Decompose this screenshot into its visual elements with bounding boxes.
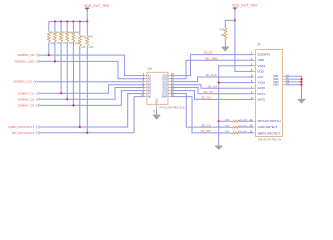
J5 right pin stubs (283, 76, 286, 84)
node D3/R45 junction (72, 104, 74, 106)
svg-text:CARD DETECT: CARD DETECT (258, 125, 278, 129)
svg-text:SD_WP: SD_WP (201, 129, 211, 133)
svg-text:U9: U9 (148, 67, 152, 71)
node R49 junction (218, 120, 220, 122)
svg-text:DAT0: DAT0 (258, 86, 266, 90)
node D0/R41 junction (48, 54, 50, 56)
svg-text:10K: 10K (89, 45, 94, 49)
svg-text:SD_CLK: SD_CLK (206, 73, 217, 77)
svg-text:SD_D3: SD_D3 (204, 51, 214, 55)
resistor R43 (pull-up col3) (60, 22, 68, 94)
svg-text:R47: R47 (89, 35, 94, 39)
svg-text:11: 11 (153, 111, 156, 113)
svg-text:SDMMC_D2: SDMMC_D2 (17, 97, 34, 101)
wire SDMMC_D1 to U9 pin4 (39, 85, 145, 94)
svg-text:DAT2: DAT2 (258, 97, 266, 101)
svg-text:SD_CD: SD_CD (201, 123, 211, 127)
ground arrow bottom (GND net) (215, 146, 223, 150)
svg-text:10: 10 (249, 124, 252, 128)
port SDMMC_D2 (17, 97, 39, 101)
U9 left pin stubs (145, 76, 148, 97)
svg-text:PI4ULS3V4857ZLE: PI4ULS3V4857ZLE (160, 105, 185, 109)
svg-text:12: 12 (249, 118, 252, 122)
resistor R50 (card detect series) (225, 125, 253, 128)
svg-text:WP/ACD SWITCH: WP/ACD SWITCH (258, 119, 281, 123)
wire branch to R48 (225, 20, 235, 27)
U9 right pin stubs (168, 76, 171, 97)
svg-text:CARD_PROTECT3: CARD_PROTECT3 (8, 125, 35, 129)
wire U9.B3 to SD_CLK net (171, 77, 254, 82)
U9 right pin numbers (171, 73, 174, 97)
port SDMMC_D1 (17, 91, 39, 95)
port WR_PROTECT3 (12, 131, 40, 135)
wire U9.B5 to SD_D1 net (171, 88, 254, 94)
svg-text:CMD: CMD (258, 58, 266, 62)
resistor R44 (pull-up col4) (66, 22, 74, 100)
svg-text:WRITE PROTECT: WRITE PROTECT (258, 131, 281, 135)
resistor R45 (pull-up col5) (72, 22, 80, 106)
svg-text:SW4: SW4 (273, 84, 279, 87)
resistor R48 (discharge) (220, 28, 227, 47)
J5 left pin names (257, 53, 281, 136)
J5 left pin numbers (249, 51, 253, 133)
svg-text:VDD: VDD (258, 69, 265, 73)
wire SDMMC_CMD to U9 pin2 (39, 61, 145, 78)
port SDMMC_D3 (17, 103, 39, 107)
wire GND net from J5 VSS1 (219, 66, 253, 146)
svg-text:SD_D0: SD_D0 (208, 84, 218, 88)
svg-text:SD_D1: SD_D1 (204, 90, 214, 94)
svg-text:10K: 10K (56, 41, 61, 45)
svg-text:10K: 10K (69, 41, 74, 45)
resistor R49 (WP/ACD switch pulldown) (219, 120, 253, 123)
resistor R42 (pull-up col2) (54, 22, 62, 62)
ground arrow right of J5 (298, 99, 306, 103)
U9 left pin names (148, 74, 152, 99)
svg-text:VDD_DUT_SD0: VDD_DUT_SD0 (232, 4, 257, 8)
svg-text:SM-AAJF-PEL-W: SM-AAJF-PEL-W (258, 138, 282, 142)
wire power2 down to J5 VDD pin (235, 10, 253, 71)
ground arrow under U9 (153, 115, 161, 120)
U9 left pin numbers (141, 73, 144, 97)
svg-text:GND: GND (156, 98, 159, 104)
J5 right switch pin names (273, 75, 279, 86)
svg-text:SDMMC_CMD: SDMMC_CMD (14, 59, 35, 63)
node bus junctions (54, 20, 89, 22)
wire SDMMC_CLK to U9 pin3 (37, 81, 145, 83)
node D1/R43 junction (60, 92, 62, 94)
J5 left pin stubs (253, 55, 256, 133)
wire SDMMC_D0 to U9 pin1 (39, 55, 145, 76)
resistor R46 (pull-up col6) (78, 22, 86, 128)
svg-text:SD_CMD: SD_CMD (205, 56, 217, 60)
svg-text:11: 11 (250, 130, 253, 134)
wire SDMMC_D3 to U9 pin6 (39, 91, 145, 106)
svg-text:SD_D2: SD_D2 (201, 96, 211, 100)
wire U9.B4 to SD_D0 net (171, 85, 254, 89)
svg-text:DAT1: DAT1 (258, 92, 266, 96)
port SDMMC_CLK (13, 80, 36, 84)
svg-text:VSS2: VSS2 (258, 81, 266, 85)
wire U9.B2 to SD_CMD net (171, 60, 254, 78)
node CMD/R42 junction (54, 60, 56, 62)
wire CARD_PROTECT3 to U9 pin7 (39, 94, 145, 128)
wire U9.B7 to SD_CD net (171, 94, 232, 128)
U9 right pin names (161, 74, 167, 99)
port SDMMC_D0 (17, 53, 39, 57)
node SW junctions (300, 78, 302, 86)
wire SDMMC_D2 to U9 pin5 (39, 88, 145, 100)
svg-text:SWP: SWP (161, 95, 167, 99)
wire top pull-up bus (49, 21, 88, 23)
svg-text:R48: R48 (220, 29, 225, 32)
connector J5 SD card socket body (256, 43, 283, 142)
svg-text:1M: 1M (221, 34, 224, 37)
svg-text:SDMMC_CLK: SDMMC_CLK (13, 80, 32, 84)
svg-text:SDMMC_D0: SDMMC_D0 (17, 53, 34, 57)
wire GND to J5 VSS2 (219, 82, 253, 84)
node CARD/R46 junction (79, 126, 81, 128)
wire U9.B1 to SD_D3 net (171, 55, 254, 76)
node VSS2 junction (218, 82, 220, 84)
op-amp U9 level shifter body (147, 67, 185, 109)
resistor R41 (pull-up col1) (47, 22, 55, 56)
U9 ground pin stub (153, 104, 156, 115)
wire U9.B6 to SD_D2 net (171, 91, 254, 100)
wire U9.B8 to SD_WP net (171, 97, 232, 133)
J5 right pin numbers (286, 75, 290, 85)
svg-text:CLK: CLK (258, 75, 264, 79)
ground arrow below R48 (222, 47, 230, 52)
svg-text:J5: J5 (257, 43, 261, 47)
port CARD_PROTECT3 (8, 125, 39, 129)
node D2/R44 junction (66, 98, 68, 100)
svg-text:SDMMC_D1: SDMMC_D1 (17, 91, 34, 95)
resistor R47 (pull-up col7) (86, 22, 94, 133)
power symbol VDD_DUT_RF0 (left rail) (84, 4, 109, 10)
wire WR_PROTECT3 to U9 pin8 (39, 97, 145, 133)
wire SW pins to ground (285, 76, 301, 99)
resistor R51 (write protect series) (225, 131, 253, 134)
wire power1 down to bus (86, 10, 88, 21)
power symbol VDD_DUT_SD (right rail) (232, 4, 257, 11)
node WR/R47 junction (86, 132, 88, 134)
svg-text:10K: 10K (81, 45, 86, 49)
svg-text:WR_PROTECT3: WR_PROTECT3 (12, 131, 35, 135)
node power2 branch junction (234, 19, 236, 21)
svg-text:VSS1: VSS1 (258, 64, 266, 68)
port SDMMC_CMD (14, 59, 39, 63)
svg-text:CD/DAT3: CD/DAT3 (257, 53, 270, 57)
svg-text:A8: A8 (148, 95, 152, 99)
svg-text:SDMMC_D3: SDMMC_D3 (17, 103, 34, 107)
svg-text:VDD_DUT_RF0: VDD_DUT_RF0 (84, 4, 109, 8)
